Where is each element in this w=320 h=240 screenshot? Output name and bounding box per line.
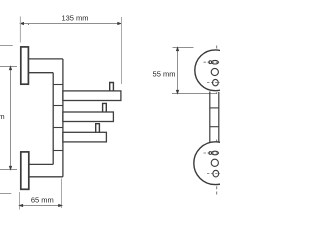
dimension 55 mm bottom arrow — [176, 90, 178, 93]
svg-text:65 mm: 65 mm — [31, 195, 54, 204]
left vertical dimension extension line top — [0, 66, 17, 68]
front view: bottom hook 1 dashed axis — [204, 152, 221, 154]
dimension 135 mm left extension line — [19, 16, 21, 42]
front view: bottom hook 3 ellipse — [213, 170, 219, 177]
side view: swivel arm 3 — [63, 132, 107, 142]
left vertical dimension bottom arrow — [9, 166, 11, 169]
dimension 135 mm right extension line — [121, 17, 123, 84]
dimension 55 mm top arrow — [176, 48, 178, 51]
left vertical dimension top arrow — [9, 67, 11, 70]
front view: top hook 3 dashed axis — [207, 82, 220, 84]
side view: hook tab on arm 2 — [103, 103, 107, 112]
dimension 65 mm line — [20, 205, 62, 207]
dimension 65 mm right extension line — [61, 179, 63, 209]
dimension 55 mm top extension line — [173, 47, 194, 49]
front view: post rung 1 — [210, 107, 219, 109]
side view: post collar rung 2 — [53, 105, 63, 107]
side view: top bracket arm bottom edge — [29, 72, 54, 74]
cut-off extension line top-left — [0, 45, 13, 47]
side view: post collar rung 3 — [53, 127, 63, 129]
dimension 65 mm right arrow — [59, 204, 62, 206]
side view: top bracket arm top edge — [29, 58, 63, 60]
side view: top wall plate — [21, 47, 29, 84]
svg-text:135 mm: 135 mm — [61, 13, 88, 22]
front view: bottom hook 3 dashed axis — [207, 173, 220, 175]
dimension 65 mm left arrow — [20, 204, 23, 206]
side view: hook tab on arm 1 — [110, 83, 114, 91]
front view: bottom hook 2 circle — [211, 159, 218, 166]
left vertical dimension line — [10, 67, 12, 170]
front view: post right edge — [218, 92, 220, 146]
front view: top hook 2 circle — [211, 68, 218, 75]
dimension 55 mm line — [177, 48, 179, 94]
svg-text:mm: mm — [0, 112, 5, 121]
front view: bottom hook 1 arm (end-on) — [212, 151, 219, 155]
side view: post collar rung 4 — [53, 150, 63, 152]
side view: swivel arm 1 — [63, 91, 121, 101]
front view: post left edge — [209, 92, 211, 147]
front view: top wall rose circle — [195, 50, 236, 91]
side view: bottom bracket arm bottom edge — [29, 176, 63, 178]
dimension 55 mm bottom extension line — [172, 93, 217, 95]
front view: top hook 1 arm (end-on) — [212, 60, 219, 64]
side view: post collar rung 1 — [53, 84, 63, 86]
front view: top hook 3 ellipse — [213, 79, 219, 85]
cut-off extension line bottom-left — [0, 193, 11, 195]
front view: bottom hook 1 knob — [209, 152, 212, 155]
svg-text:55 mm: 55 mm — [153, 70, 176, 79]
front view: bottom wall rose circle — [194, 142, 237, 185]
side view: post left edge — [52, 73, 54, 165]
dimension 135 mm right arrow — [118, 22, 121, 24]
side view: bottom wall plate — [21, 152, 29, 189]
front view: centerline (dashed) — [216, 46, 218, 196]
dimension 135 mm line — [20, 23, 121, 25]
left vertical dimension extension line bottom — [0, 169, 17, 171]
side view: swivel arm 2 — [63, 112, 114, 122]
front view: top hook 1 dashed axis — [204, 61, 221, 63]
front view: top hook 1 knob — [209, 61, 212, 64]
front view: post rung 2 — [210, 126, 219, 128]
dimension 135 mm left arrow — [20, 22, 23, 24]
dimension 65 mm left extension line — [19, 192, 21, 210]
side view: bottom bracket arm top edge — [29, 163, 54, 165]
side view: hook tab on arm 3 — [96, 124, 100, 133]
side view: post right edge — [62, 59, 64, 177]
